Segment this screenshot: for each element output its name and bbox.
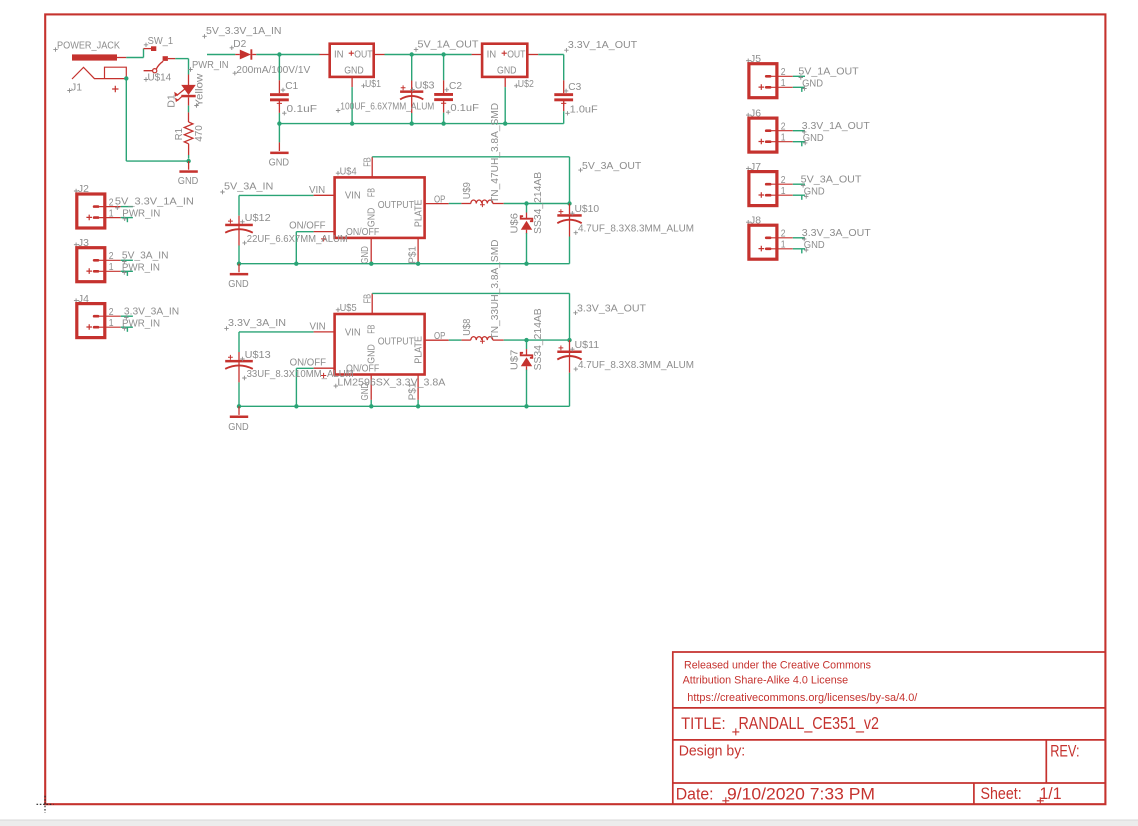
svg-text:REV:: REV: xyxy=(1050,742,1079,760)
wire xyxy=(351,87,353,124)
svg-text:PWR_IN: PWR_IN xyxy=(122,262,160,273)
wire xyxy=(239,194,314,196)
ground xyxy=(188,161,190,170)
svg-text:3.3V_3A_OUT: 3.3V_3A_OUT xyxy=(577,304,647,315)
capacitor U$13 xyxy=(225,360,253,363)
svg-text:1.0uF: 1.0uF xyxy=(570,104,598,115)
wire xyxy=(411,113,413,124)
net label GND xyxy=(804,194,808,198)
wire xyxy=(125,78,127,161)
wire xyxy=(295,368,297,406)
junction xyxy=(237,404,241,408)
junction xyxy=(416,404,420,408)
svg-text:U$7: U$7 xyxy=(510,349,521,370)
value LM2596SX_3.3V_3.8A of U$5 xyxy=(334,384,338,388)
wire xyxy=(801,87,803,92)
net label GND xyxy=(804,248,808,252)
net label 5V_3A_OUT xyxy=(578,168,582,172)
wire xyxy=(372,292,569,294)
connector J2 xyxy=(74,189,78,193)
diode U$7 xyxy=(526,340,528,349)
svg-text:2: 2 xyxy=(109,197,114,208)
svg-text:U$8: U$8 xyxy=(462,318,473,335)
value 1.0uF of C3 xyxy=(565,111,569,115)
label C3 xyxy=(564,89,568,93)
value 0.1uF of C1 xyxy=(282,111,286,115)
wire xyxy=(188,59,190,75)
net label 3.3V_1A_OUT xyxy=(802,130,806,134)
pin FB of U$5 xyxy=(371,293,373,314)
svg-text:22UF_6.6X7MM_ALUM: 22UF_6.6X7MM_ALUM xyxy=(247,234,348,245)
svg-text:PLATE: PLATE xyxy=(414,336,425,364)
svg-text:GND: GND xyxy=(228,422,249,433)
svg-text:U$9: U$9 xyxy=(462,182,473,199)
svg-text:GND: GND xyxy=(178,176,199,187)
wire xyxy=(296,367,313,369)
wire xyxy=(239,405,570,407)
junction xyxy=(237,262,241,266)
svg-text:1: 1 xyxy=(781,78,786,89)
pin ON/OFF of U$5 xyxy=(314,367,335,369)
wire xyxy=(504,87,506,124)
svg-text:VIN: VIN xyxy=(345,327,361,338)
svg-text:VIN: VIN xyxy=(310,322,326,333)
wire xyxy=(295,232,297,264)
wire xyxy=(793,194,805,196)
svg-text:2: 2 xyxy=(781,67,786,78)
wire xyxy=(411,55,413,81)
svg-text:U$12: U$12 xyxy=(245,213,271,224)
wire xyxy=(526,370,528,407)
wire xyxy=(443,55,445,81)
svg-text:GND: GND xyxy=(228,279,249,290)
wire xyxy=(793,86,805,88)
label U$3 xyxy=(410,87,414,91)
svg-text:GND: GND xyxy=(802,78,823,89)
wire xyxy=(126,327,128,332)
net label 5V_3A_IN xyxy=(122,259,126,263)
wire xyxy=(278,113,280,124)
label U$13 xyxy=(240,357,244,361)
value 0.1uF of C2 xyxy=(446,110,450,114)
svg-text:Date:: Date: xyxy=(676,784,714,803)
svg-text:4.7UF_8.3X8.3MM_ALUM: 4.7UF_8.3X8.3MM_ALUM xyxy=(578,360,694,371)
wire xyxy=(121,270,133,272)
net label 5V_3.3V_1A_IN xyxy=(202,34,206,38)
wire xyxy=(793,248,805,250)
svg-text:GND: GND xyxy=(367,208,378,228)
svg-text:R1: R1 xyxy=(174,128,185,140)
page bottom strip xyxy=(0,820,1138,826)
svg-text:FB: FB xyxy=(363,157,374,167)
wire xyxy=(801,142,803,147)
wire xyxy=(121,326,133,328)
switch U$14 xyxy=(144,43,148,47)
wire xyxy=(793,183,805,185)
label C2 xyxy=(445,88,449,92)
wire xyxy=(126,160,188,162)
svg-text:D2: D2 xyxy=(233,39,246,50)
svg-text:C3: C3 xyxy=(568,82,581,93)
junction xyxy=(416,262,420,266)
junction xyxy=(524,262,528,266)
svg-text:GND: GND xyxy=(804,240,825,251)
wire xyxy=(449,339,462,341)
pin FB of U$4 xyxy=(371,157,373,178)
svg-text:U$6: U$6 xyxy=(510,213,521,234)
wire xyxy=(793,237,805,239)
ground xyxy=(238,406,240,415)
svg-text:POWER_JACK: POWER_JACK xyxy=(57,40,120,51)
LED D1 xyxy=(188,75,190,86)
wire xyxy=(121,206,133,208)
wire xyxy=(188,155,190,159)
svg-text:Attribution Share-Alike 4.0 Li: Attribution Share-Alike 4.0 License xyxy=(683,674,849,686)
svg-text:0.1uF: 0.1uF xyxy=(450,103,479,114)
svg-text:OUT: OUT xyxy=(354,49,373,60)
svg-text:U$14: U$14 xyxy=(148,72,172,83)
junction xyxy=(294,404,298,408)
wire xyxy=(121,259,133,261)
svg-text:3.3V_3A_IN: 3.3V_3A_IN xyxy=(228,318,286,329)
svg-text:P$1: P$1 xyxy=(407,246,418,264)
svg-text:9/10/2020 7:33 PM: 9/10/2020 7:33 PM xyxy=(727,785,875,804)
wire xyxy=(126,271,128,276)
svg-text:5V_3A_IN: 5V_3A_IN xyxy=(224,182,273,193)
svg-text:GND: GND xyxy=(360,246,371,264)
junction xyxy=(124,76,128,80)
svg-text:ON/OFF: ON/OFF xyxy=(289,221,326,232)
inductor U$8 xyxy=(461,339,470,341)
resistor R1 xyxy=(184,122,193,144)
ground xyxy=(238,264,240,273)
net label 5V_1A_OUT xyxy=(799,75,803,79)
svg-text:2: 2 xyxy=(781,121,786,132)
svg-text:1: 1 xyxy=(109,318,114,329)
wire xyxy=(563,111,565,123)
wire xyxy=(569,237,571,264)
value 4.7UF_8.3X8.3MM_ALUM of U$10 xyxy=(574,231,578,235)
net label GND xyxy=(802,86,806,90)
svg-text:FB: FB xyxy=(363,294,374,304)
wire xyxy=(801,249,803,254)
connector J6 xyxy=(746,113,750,117)
wire xyxy=(569,157,571,204)
regulator U$5 xyxy=(335,314,425,375)
wire xyxy=(207,54,235,56)
svg-text:SS34_214AB: SS34_214AB xyxy=(533,308,544,370)
net label 3.3V_3A_OUT xyxy=(573,311,577,315)
wire xyxy=(239,263,570,265)
svg-text:TITLE:: TITLE: xyxy=(681,714,726,733)
net label PWR_IN xyxy=(188,67,192,71)
pin GND of U$4 xyxy=(370,238,372,263)
svg-text:U$1: U$1 xyxy=(365,79,381,90)
svg-text:U$3: U$3 xyxy=(415,81,435,92)
svg-text:5V_3A_OUT: 5V_3A_OUT xyxy=(582,161,642,172)
junction xyxy=(441,121,445,125)
title block xyxy=(673,652,1106,804)
wire xyxy=(538,54,563,56)
svg-text:1: 1 xyxy=(781,186,786,197)
net label PWR_IN xyxy=(123,217,127,221)
svg-text:GND: GND xyxy=(344,65,364,76)
svg-text:3.3V_3A_IN: 3.3V_3A_IN xyxy=(124,306,179,317)
svg-text:C2: C2 xyxy=(449,81,462,92)
svg-text:J1: J1 xyxy=(71,82,82,93)
svg-text:4.7UF_8.3X8.3MM_ALUM: 4.7UF_8.3X8.3MM_ALUM xyxy=(578,224,694,235)
junction xyxy=(524,338,528,342)
wire xyxy=(278,124,280,143)
capacitor U$11 xyxy=(557,351,581,354)
svg-text:D1: D1 xyxy=(166,94,177,108)
wire xyxy=(239,331,314,333)
wire xyxy=(793,130,805,132)
wire xyxy=(238,332,240,352)
svg-text:5V_3A_IN: 5V_3A_IN xyxy=(122,250,169,261)
svg-text:0.1uF: 0.1uF xyxy=(287,104,318,115)
pin VIN of U$5 xyxy=(314,331,335,333)
junction xyxy=(524,404,528,408)
junction xyxy=(186,159,190,163)
capacitor U$12 xyxy=(225,224,253,227)
svg-text:5V_3A_OUT: 5V_3A_OUT xyxy=(801,174,863,185)
svg-text:5V_3.3V_1A_IN: 5V_3.3V_1A_IN xyxy=(206,26,282,37)
wire xyxy=(372,156,569,158)
junction xyxy=(277,121,281,125)
wire xyxy=(793,141,805,143)
svg-text:RANDALL_CE351_v2: RANDALL_CE351_v2 xyxy=(739,713,880,733)
wire xyxy=(296,231,313,233)
wire xyxy=(569,373,571,407)
regulator U$4 xyxy=(335,177,425,238)
value 4.7UF_8.3X8.3MM_ALUM of U$11 xyxy=(574,367,578,371)
net label 5V_3A_OUT xyxy=(801,183,805,187)
svg-text:1: 1 xyxy=(781,240,786,251)
net label 3.3V_3A_OUT xyxy=(802,237,806,241)
connector J4 xyxy=(74,298,78,302)
wire xyxy=(121,315,133,317)
wire xyxy=(143,49,145,58)
svg-text:2: 2 xyxy=(781,229,786,240)
junction xyxy=(503,121,507,125)
wire xyxy=(126,57,143,59)
svg-text:SS34_214AB: SS34_214AB xyxy=(533,172,544,234)
capacitor C3 xyxy=(554,93,573,96)
junction xyxy=(350,121,354,125)
junction xyxy=(441,52,445,56)
svg-text:3.3V_3A_OUT: 3.3V_3A_OUT xyxy=(802,228,872,239)
junction xyxy=(369,404,373,408)
net label 5V_3A_IN xyxy=(220,190,224,194)
diode U$6 xyxy=(526,204,528,213)
capacitor C1 xyxy=(270,93,289,96)
label U$10 xyxy=(570,211,574,215)
svg-text:IN: IN xyxy=(487,49,497,60)
pin P$1 of U$5 xyxy=(417,375,419,400)
pin GND of U$5 xyxy=(370,375,372,400)
wire xyxy=(121,217,133,219)
svg-text:U$10: U$10 xyxy=(575,204,600,215)
regulator U$2 xyxy=(482,44,527,77)
svg-text:VIN: VIN xyxy=(345,191,361,202)
svg-text:1: 1 xyxy=(781,132,786,143)
net label 5V_1A_OUT xyxy=(414,47,418,51)
svg-text:OP: OP xyxy=(434,195,445,206)
svg-text:LM2596SX_3.3V_3.8A: LM2596SX_3.3V_3.8A xyxy=(337,377,445,388)
svg-text:U$2: U$2 xyxy=(518,79,534,90)
wire xyxy=(443,113,445,124)
svg-text:GND: GND xyxy=(803,133,824,144)
svg-text:ON/OFF: ON/OFF xyxy=(346,227,379,238)
wire xyxy=(449,203,462,205)
svg-text:U$11: U$11 xyxy=(575,340,600,351)
wire xyxy=(126,218,128,223)
svg-text:ON/OFF: ON/OFF xyxy=(290,357,327,368)
svg-text:GND: GND xyxy=(804,186,825,197)
svg-text:PWR_IN: PWR_IN xyxy=(192,60,229,71)
svg-text:2: 2 xyxy=(109,307,114,318)
svg-text:470: 470 xyxy=(194,125,205,142)
value 100UF_6.6X7MM_ALUM of U$3 xyxy=(336,108,340,112)
wire xyxy=(504,203,570,205)
junction xyxy=(294,262,298,266)
junction xyxy=(369,262,373,266)
junction xyxy=(524,201,528,205)
pin ON/OFF of U$4 xyxy=(314,231,335,233)
connector J5 xyxy=(746,59,750,63)
connector J3 xyxy=(74,243,78,247)
svg-text:SW_1: SW_1 xyxy=(148,36,174,47)
regulator U$1 xyxy=(330,44,374,77)
svg-text:2: 2 xyxy=(109,251,114,262)
pin OUTPUT of U$4 xyxy=(425,203,449,205)
svg-text:U$4: U$4 xyxy=(340,166,357,177)
wire xyxy=(569,293,571,340)
value 22UF_6.6X7MM_ALUM of U$12 xyxy=(242,241,246,245)
svg-text:Design by:: Design by: xyxy=(679,744,746,760)
wire xyxy=(238,246,240,264)
junction xyxy=(567,338,571,342)
svg-text:FB: FB xyxy=(367,188,378,197)
svg-text:C1: C1 xyxy=(285,81,298,92)
svg-text:PLATE: PLATE xyxy=(414,199,425,227)
svg-text:3.3V_1A_OUT: 3.3V_1A_OUT xyxy=(568,40,638,51)
label U$12 xyxy=(240,220,244,224)
svg-text:GND: GND xyxy=(269,157,290,168)
net label GND xyxy=(803,141,807,145)
svg-text:5V_1A_OUT: 5V_1A_OUT xyxy=(798,66,859,77)
net label 3.3V_1A_OUT xyxy=(564,48,568,52)
svg-text:Released under the Creative Co: Released under the Creative Commons xyxy=(684,659,871,671)
wire xyxy=(278,55,280,81)
junction xyxy=(410,52,414,56)
connector J8 xyxy=(746,220,750,224)
svg-text:U$13: U$13 xyxy=(245,350,271,361)
svg-text:3.3V_1A_OUT: 3.3V_1A_OUT xyxy=(802,121,871,132)
wire xyxy=(793,75,805,77)
svg-text:TN_33UH_3.8A_SMD: TN_33UH_3.8A_SMD xyxy=(490,240,501,340)
connector J1 power jack xyxy=(53,47,57,51)
net label PWR_IN xyxy=(122,270,126,274)
diode D2 xyxy=(235,54,240,56)
junction xyxy=(567,201,571,205)
wire xyxy=(504,339,570,341)
net label 3.3V_3A_IN xyxy=(224,326,228,330)
svg-text:5V_3.3V_1A_IN: 5V_3.3V_1A_IN xyxy=(115,197,194,208)
origin crosshair xyxy=(37,796,54,813)
wire xyxy=(526,233,528,264)
svg-text:5V_1A_OUT: 5V_1A_OUT xyxy=(418,39,480,50)
svg-text:https://creativecommons.org/li: https://creativecommons.org/licenses/by-… xyxy=(687,692,917,704)
pin OUTPUT of U$5 xyxy=(425,339,449,341)
pin VIN of U$4 xyxy=(314,194,335,196)
junction xyxy=(410,121,414,125)
label C1 xyxy=(281,88,285,92)
label U$11 xyxy=(570,347,574,351)
net label 5V_3.3V_1A_IN xyxy=(115,206,119,210)
svg-text:Yellow: Yellow xyxy=(195,73,206,107)
svg-text:VIN: VIN xyxy=(309,185,325,196)
capacitor U$3 xyxy=(400,90,423,93)
pin P$1 of U$4 xyxy=(417,238,419,263)
wire xyxy=(238,195,240,215)
wire xyxy=(279,123,563,125)
svg-text:1: 1 xyxy=(109,262,114,273)
wire xyxy=(238,382,240,406)
value 33UF_8.3X10MM_ALUM of U$13 xyxy=(242,376,246,380)
capacitor U$10 xyxy=(557,214,581,217)
svg-text:IN: IN xyxy=(334,49,344,60)
svg-text:PWR_IN: PWR_IN xyxy=(122,209,160,220)
connector J7 xyxy=(746,166,750,170)
net label PWR_IN xyxy=(122,326,126,330)
inductor U$9 xyxy=(461,203,470,205)
wire xyxy=(801,195,803,200)
capacitor C2 xyxy=(434,93,453,96)
wire xyxy=(175,58,188,60)
svg-text:1: 1 xyxy=(109,208,114,219)
junction xyxy=(277,52,281,56)
wire xyxy=(188,106,190,113)
svg-text:GND: GND xyxy=(367,344,378,364)
svg-text:100UF_6.6X7MM_ALUM: 100UF_6.6X7MM_ALUM xyxy=(340,102,434,113)
wire xyxy=(563,55,565,81)
svg-text:TN_47UH_3.8A_SMD: TN_47UH_3.8A_SMD xyxy=(490,103,501,203)
svg-text:OP: OP xyxy=(434,331,445,342)
svg-text:200mA/100V/1V: 200mA/100V/1V xyxy=(236,65,310,76)
svg-text:PWR_IN: PWR_IN xyxy=(122,318,160,329)
svg-text:U$5: U$5 xyxy=(340,303,357,314)
svg-text:OUTPUT: OUTPUT xyxy=(378,337,415,348)
wire xyxy=(385,54,472,56)
svg-text:2: 2 xyxy=(781,175,786,186)
svg-text:GND: GND xyxy=(497,65,517,76)
svg-text:33UF_8.3X10MM_ALUM: 33UF_8.3X10MM_ALUM xyxy=(247,369,354,380)
ground xyxy=(278,142,280,151)
svg-text:Sheet:: Sheet: xyxy=(981,785,1022,803)
svg-text:1/1: 1/1 xyxy=(1040,785,1062,803)
wire xyxy=(256,54,319,56)
svg-text:FB: FB xyxy=(367,325,378,334)
net label 3.3V_3A_IN xyxy=(124,315,128,319)
svg-text:OUTPUT: OUTPUT xyxy=(378,200,415,211)
svg-text:OUT: OUT xyxy=(507,49,526,60)
